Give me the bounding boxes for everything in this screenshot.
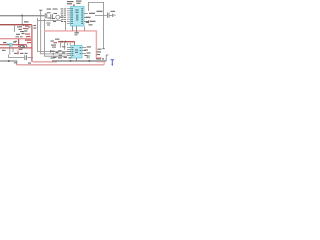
wire drops bottom-left — [10, 46, 13, 54]
red wire branch — [0, 39, 19, 45]
text near ground of long wire — [98, 49, 102, 50]
wire stub U1 right-bottom to band — [84, 27, 86, 31]
text left of U2 — [58, 46, 66, 56]
red tick above C5 — [17, 52, 18, 54]
U1 pin stubs right — [84, 14, 88, 22]
text above C5 — [14, 53, 28, 54]
capacitor C7 — [107, 13, 109, 18]
pink rail segment right — [96, 61, 104, 63]
red polarity mark above U1 — [73, 4, 74, 6]
bottom long rail pink — [17, 64, 105, 66]
text row above bottom rails — [50, 51, 72, 59]
wire drop from relay rail — [60, 42, 62, 48]
connector J2 (cyan) — [9, 43, 12, 46]
ground wire bottom-left corner — [9, 55, 33, 58]
red stub lower-left — [17, 51, 19, 55]
IC U2 — [71, 46, 82, 59]
pink stub right — [103, 62, 105, 65]
capacitor C5 — [25, 55, 27, 60]
text cluster top area C values — [47, 8, 67, 25]
red text near relay rail — [54, 42, 58, 43]
red rail lower-left — [0, 47, 32, 49]
IC U1 — [71, 7, 85, 27]
resistor R5 marks — [15, 36, 26, 50]
red relay rail — [58, 41, 75, 43]
junction ticks on bus lines — [51, 50, 54, 55]
junction tick on bottom rail — [8, 60, 10, 62]
U2 pin stubs left — [67, 48, 71, 56]
red supply rail left — [0, 24, 32, 26]
wire top rail — [0, 15, 45, 17]
transistor Q1 — [56, 15, 60, 19]
U1 bottom pin wires — [73, 26, 77, 33]
capacitor C2 — [51, 14, 53, 19]
text above relay rail — [51, 39, 60, 48]
U1 pin numbers inside — [71, 8, 83, 24]
pink corner at red vertical — [32, 61, 33, 63]
red text near relay — [23, 26, 31, 44]
relay K1 text and marks — [19, 21, 37, 32]
pink band text marks — [75, 32, 80, 35]
wire to crystal — [95, 15, 107, 17]
ground symbol right — [113, 14, 116, 17]
red wire segment to component — [19, 44, 27, 46]
junction dot on red rail — [18, 44, 19, 45]
node junction on top rail — [21, 15, 23, 17]
diode D2 right of U1 — [86, 20, 89, 23]
pink band rail center — [44, 31, 102, 58]
capacitor C1 — [45, 13, 47, 18]
U2 bottom stub — [76, 58, 78, 61]
U2 pin stubs right — [82, 48, 86, 54]
probe marker blue — [111, 60, 114, 65]
text above pink rail left — [16, 33, 25, 35]
U1 pin stubs left — [67, 9, 71, 24]
wire stub above cluster — [40, 11, 42, 21]
wire red drop to U2 — [74, 42, 76, 46]
text below pink rail left — [2, 42, 25, 51]
text labels right of U1 — [86, 11, 116, 26]
capacitor C9 right of U2 — [87, 55, 89, 58]
pink rail mid-left — [0, 38, 32, 40]
wire from top rail down to red rail — [21, 16, 23, 25]
wire drop to pink band — [65, 22, 67, 31]
wire relay drop — [14, 25, 16, 33]
vertical wire right end — [106, 55, 108, 61]
ground tick bottom of long wire — [102, 48, 104, 50]
red vertical stub R6 — [26, 45, 28, 48]
U2 pin marks inside — [72, 47, 81, 56]
wire long vertical bus B — [41, 21, 71, 54]
wire U2 power stubs — [68, 43, 71, 46]
wire long vertical bus A — [38, 18, 71, 52]
wire n-shaped to oscillator — [89, 2, 104, 48]
wire crystal to ground — [109, 15, 113, 17]
junction marks on relay rail — [62, 41, 66, 43]
marks near pink corner — [14, 62, 31, 63]
junction dots on bottom rail — [70, 60, 90, 62]
bottom mid rail gray — [52, 60, 106, 62]
wire drop from relay rail 2 — [64, 42, 66, 50]
text right bottom — [96, 51, 104, 59]
red vertical rail — [31, 25, 33, 62]
bottom rail gray left — [0, 61, 17, 65]
probe arrowhead — [111, 64, 113, 66]
label tick above bus — [39, 10, 42, 11]
bottom mid rail pink — [33, 61, 57, 63]
wire long vertical bus C — [45, 19, 67, 56]
relay coil marks — [17, 25, 31, 28]
text right of U2 — [84, 46, 91, 56]
label text above U1 — [67, 1, 82, 5]
wire mid rail — [38, 20, 62, 22]
